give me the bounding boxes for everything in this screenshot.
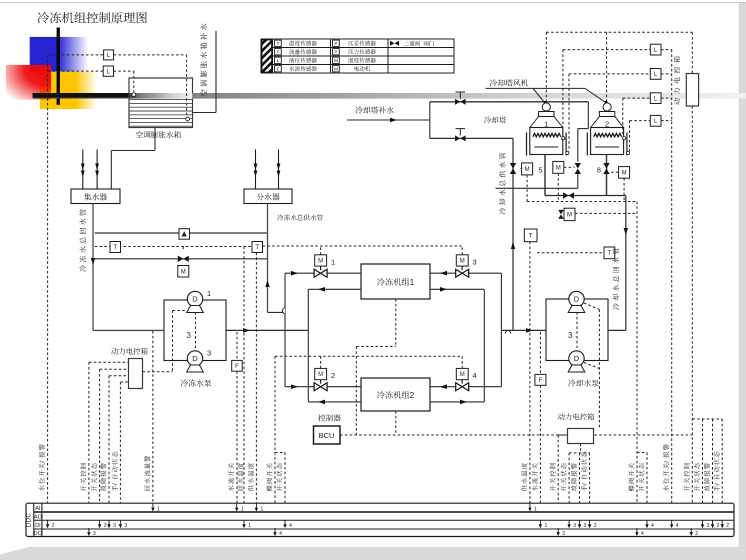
wire dashed L2 to tank left [114, 71, 134, 92]
cooling pump top [568, 291, 585, 312]
svg-text:DDC: DDC [25, 513, 32, 528]
svg-text:BCU: BCU [319, 431, 335, 440]
svg-text:1: 1 [241, 507, 244, 513]
svg-text:/: / [714, 483, 721, 485]
legend hatched cell [262, 40, 272, 73]
collector inlet risers with arrows [81, 149, 99, 189]
cooling return pipe vertical [624, 196, 628, 331]
label 动力电控箱 top right vertical [674, 56, 680, 104]
svg-text:2: 2 [410, 391, 415, 400]
svg-text:3: 3 [207, 349, 211, 358]
svg-text:F: F [276, 66, 279, 71]
bypass valve motor box M [178, 266, 189, 278]
svg-text:3: 3 [568, 331, 573, 340]
collector 集水器 [71, 189, 120, 204]
cooling pump group frame [546, 299, 608, 361]
dashed temp wires to bus (middle) [244, 247, 256, 521]
chiller left supply rail [282, 273, 285, 387]
makeup top drop to tower2 [578, 102, 589, 162]
svg-text:4: 4 [676, 523, 679, 529]
svg-text:DI: DI [35, 523, 40, 529]
svg-text:2: 2 [717, 523, 720, 529]
label 冷却水总回水管 vertical [613, 248, 619, 310]
logo red blob [6, 65, 51, 100]
makeup top line with valve [430, 92, 589, 105]
svg-text:1: 1 [545, 523, 548, 529]
pump ellipsis 3 right [568, 312, 577, 348]
svg-text:1: 1 [544, 120, 548, 129]
legend text column B [348, 41, 376, 72]
svg-text:M: M [181, 269, 186, 275]
controller box BCU [314, 426, 341, 444]
wire dashed L1 to tank right [114, 55, 187, 118]
flow switch box cooling [535, 332, 546, 521]
dashed pump status wires right [584, 303, 599, 428]
bus point labels vertical [39, 444, 721, 491]
svg-text:M: M [556, 166, 561, 172]
svg-text:D: D [574, 354, 580, 363]
chiller1 condenser line right [430, 271, 501, 276]
svg-text:M: M [318, 259, 323, 265]
svg-text:/: / [581, 483, 588, 485]
label 冷却水泵 [568, 379, 599, 386]
svg-text:3: 3 [113, 523, 116, 529]
svg-text:P: P [334, 41, 337, 46]
logo black vertical line [57, 28, 60, 105]
distributor 分水器 [244, 189, 292, 204]
svg-text:1: 1 [207, 289, 211, 298]
svg-text:4: 4 [289, 523, 292, 529]
sensor box L1 tower [650, 44, 661, 55]
dashed control wires from left cabinet to bus [89, 362, 129, 528]
power cabinet 动力电控箱 left [129, 359, 143, 389]
temp sensor box T return [110, 242, 121, 253]
cooling tower 2 [587, 103, 629, 156]
chilled pump 1 [187, 289, 211, 313]
pump ellipsis 3 [187, 312, 196, 348]
level sensor box L1 [104, 50, 114, 60]
svg-text:3: 3 [187, 331, 192, 340]
svg-text:P: P [334, 49, 337, 54]
label 动力电控箱 left [111, 348, 147, 355]
svg-text:T: T [607, 250, 611, 257]
motor valve M2 [314, 356, 335, 391]
svg-text:4: 4 [641, 531, 644, 537]
dashed butterfly valve wires to bus (middle) [275, 356, 285, 528]
svg-text:3: 3 [473, 258, 477, 267]
tower2 drain pipe [606, 155, 608, 196]
bus connection arrows [46, 504, 729, 537]
label 冷却塔 [484, 116, 506, 123]
legend table frame [261, 39, 454, 73]
wire dashed water-level riser x=47.6 [47, 55, 49, 521]
makeup riser [429, 102, 431, 139]
svg-text:1: 1 [331, 258, 335, 267]
svg-text:1: 1 [261, 507, 264, 513]
dashed control rail upper valves [263, 245, 463, 247]
wire dashed L1 left to bus riser [48, 55, 104, 71]
svg-text:3: 3 [707, 523, 710, 529]
DDC bus frame [26, 503, 734, 536]
svg-text:4: 4 [279, 531, 282, 537]
label 冷冻水总回水管 vertical [79, 209, 86, 271]
tower makeup water line 冷却塔补水 [347, 118, 430, 123]
dashed chiller1 control drop [356, 299, 396, 435]
legend sensor icons column A [275, 40, 282, 72]
tower2 inlet valve 8 with motor [597, 163, 630, 178]
motor valve M4 [456, 356, 477, 391]
svg-text:2: 2 [52, 523, 55, 529]
chilled pump 3 [187, 349, 211, 373]
svg-text:D: D [192, 354, 198, 363]
dashed butterfly wires right to bus [637, 202, 647, 529]
sensor box L2 tower [650, 69, 661, 80]
legend text column A [289, 41, 317, 72]
svg-text:3: 3 [573, 523, 576, 529]
cooling tower 1 [527, 103, 569, 156]
chiller1 condenser return right [430, 287, 484, 292]
expansion tank label [136, 131, 181, 138]
svg-text:M: M [567, 213, 572, 219]
svg-text:M: M [334, 58, 338, 63]
dashed BCU bus wire [340, 434, 692, 436]
flow switch box chilled [232, 332, 243, 521]
chilled pump group frame [164, 300, 226, 361]
svg-text:8: 8 [597, 168, 601, 175]
DDC label vertical [25, 513, 32, 528]
pipe tank to collector [111, 128, 155, 190]
chiller1 inlet line [285, 271, 361, 276]
makeup bottom line with valve [430, 129, 513, 142]
temp sensor box T supply [252, 242, 263, 253]
svg-text:M: M [334, 66, 338, 71]
svg-text:3: 3 [594, 523, 597, 529]
svg-text:M: M [460, 259, 465, 265]
svg-text:L: L [277, 58, 280, 63]
flow sensor box on header [179, 229, 190, 240]
level sensor box L2 [103, 66, 113, 76]
dashed bypass valve control stub [182, 247, 184, 252]
gray horizontal band [33, 93, 746, 99]
svg-text:F: F [235, 364, 239, 370]
svg-text:3: 3 [562, 531, 565, 537]
svg-text:AO: AO [34, 514, 42, 520]
gray band over tank [129, 93, 193, 99]
dashed control wires top-right cabinet to bus [692, 106, 722, 529]
cooling pump bottom [568, 351, 585, 372]
bypass motor valve assembly [558, 208, 637, 220]
svg-text:M: M [622, 171, 627, 177]
logo black horizontal line [33, 93, 142, 98]
main chilled line into pumps [93, 329, 164, 331]
dashed sensor link line y=246.5 [95, 246, 257, 248]
svg-text:AI: AI [35, 506, 40, 512]
svg-text:1: 1 [534, 507, 537, 513]
svg-text:/: / [39, 461, 46, 463]
condenser line to pumps with break [501, 328, 546, 333]
dashed chiller2 control drop [395, 411, 397, 435]
supply valve V5 with motor [510, 163, 543, 175]
power cabinet 动力电控箱 right [568, 429, 594, 444]
legend valve symbol 二通阀 [390, 41, 434, 46]
svg-text:F: F [539, 378, 543, 384]
cooling supply pipe vertical [511, 138, 515, 330]
tank level tap circles [132, 93, 136, 97]
chiller1 outlet line left [308, 287, 361, 292]
dashed wires L boxes to towers [563, 50, 672, 152]
chilled return pipe from collector [91, 204, 95, 331]
label 空调膨胀水箱补水 vertical [200, 24, 207, 97]
fan leader 冷却塔风机 [486, 79, 608, 105]
tower1 drain pipe [544, 155, 546, 196]
power cabinet 动力电控箱 top right [686, 74, 698, 107]
svg-text:5: 5 [539, 168, 543, 175]
cooling return connects pump inlet [608, 329, 626, 331]
svg-text:1: 1 [410, 278, 415, 287]
svg-text:3: 3 [125, 523, 128, 529]
label 冷冻水泵 [181, 379, 212, 386]
svg-text:4: 4 [651, 523, 654, 529]
distributor outlet risers with arrows [254, 149, 281, 189]
title 冷冻机组控制原理图 [38, 12, 147, 23]
chiller right return rail [483, 289, 485, 402]
chiller2 inlet line [285, 384, 361, 389]
header line upper y=233 [95, 232, 268, 234]
svg-text:D: D [192, 295, 198, 304]
label 冷冻水总供水管 [277, 214, 323, 220]
svg-text:T: T [529, 233, 533, 240]
chilled supply pipe from distributor [265, 204, 285, 313]
logo yellow square [40, 72, 97, 109]
svg-text:3: 3 [584, 523, 587, 529]
svg-text:M: M [460, 372, 465, 378]
main chilled line out of pumps [226, 328, 308, 333]
chiller unit 1 box [361, 264, 430, 299]
label 冷却水总供水管 vertical [499, 153, 505, 215]
motor valve M1 [314, 246, 335, 277]
dashed control wires right cabinet [558, 435, 589, 529]
svg-text:M: M [525, 167, 530, 173]
motor valve M3 [456, 246, 477, 277]
svg-text:4: 4 [473, 371, 477, 380]
svg-text:1: 1 [157, 507, 160, 513]
chiller2 condenser line right [430, 384, 501, 389]
tower bypass line with valve [545, 192, 626, 198]
svg-text:3: 3 [104, 523, 107, 529]
dashed tower valve control rail [527, 173, 637, 201]
header line lower y=258.8 with bypass valve [95, 256, 268, 262]
svg-text:/: / [664, 461, 671, 463]
svg-text:3: 3 [93, 531, 96, 537]
chiller2 outlet line left [308, 400, 361, 405]
tower1 inlet valve with motor [553, 161, 581, 188]
label 动力电控箱 right [558, 413, 594, 420]
svg-text:2: 2 [726, 523, 729, 529]
svg-text:M: M [318, 372, 323, 378]
svg-text:2: 2 [605, 120, 609, 129]
return temp sensor T cooling [537, 247, 615, 259]
svg-text:DO: DO [34, 531, 42, 537]
expansion tank 空调膨胀水箱 [129, 78, 193, 128]
legend sensor icons column B [333, 40, 340, 72]
dashed pump feedback wires left [143, 311, 188, 372]
svg-text:/: / [112, 483, 119, 485]
supply temp sensor T cooling [524, 229, 537, 504]
chiller left return rail [307, 289, 309, 402]
logo blue square [30, 37, 89, 72]
controller label 控制器 [318, 414, 340, 421]
svg-text:D: D [574, 295, 580, 304]
dashed control rail lower valves [275, 355, 462, 357]
tank supply pipe 空调膨胀水箱补水 [193, 31, 217, 113]
sensor box L4 tower [650, 115, 661, 126]
label 冷却塔补水 [355, 106, 393, 113]
svg-text:T: T [113, 245, 117, 251]
chiller unit 2 box [361, 378, 430, 411]
chiller2 condenser return right [430, 400, 484, 405]
svg-text:F: F [276, 49, 279, 54]
svg-text:1: 1 [248, 523, 251, 529]
chiller right supply rail [500, 273, 502, 387]
svg-text:T: T [276, 41, 279, 46]
sensor box L3 tower [650, 93, 661, 104]
bus row labels AI AO DI DO [34, 506, 42, 537]
svg-text:2: 2 [695, 531, 698, 537]
dashed return flow wire x=152.9 [152, 331, 154, 504]
expansion tank stripes [130, 100, 192, 127]
tower supply manifold line [496, 187, 578, 189]
dashed fan control rail top [546, 32, 692, 103]
svg-text:T: T [255, 245, 259, 251]
svg-text:2: 2 [331, 371, 335, 380]
dashed water level wire right [671, 50, 673, 521]
